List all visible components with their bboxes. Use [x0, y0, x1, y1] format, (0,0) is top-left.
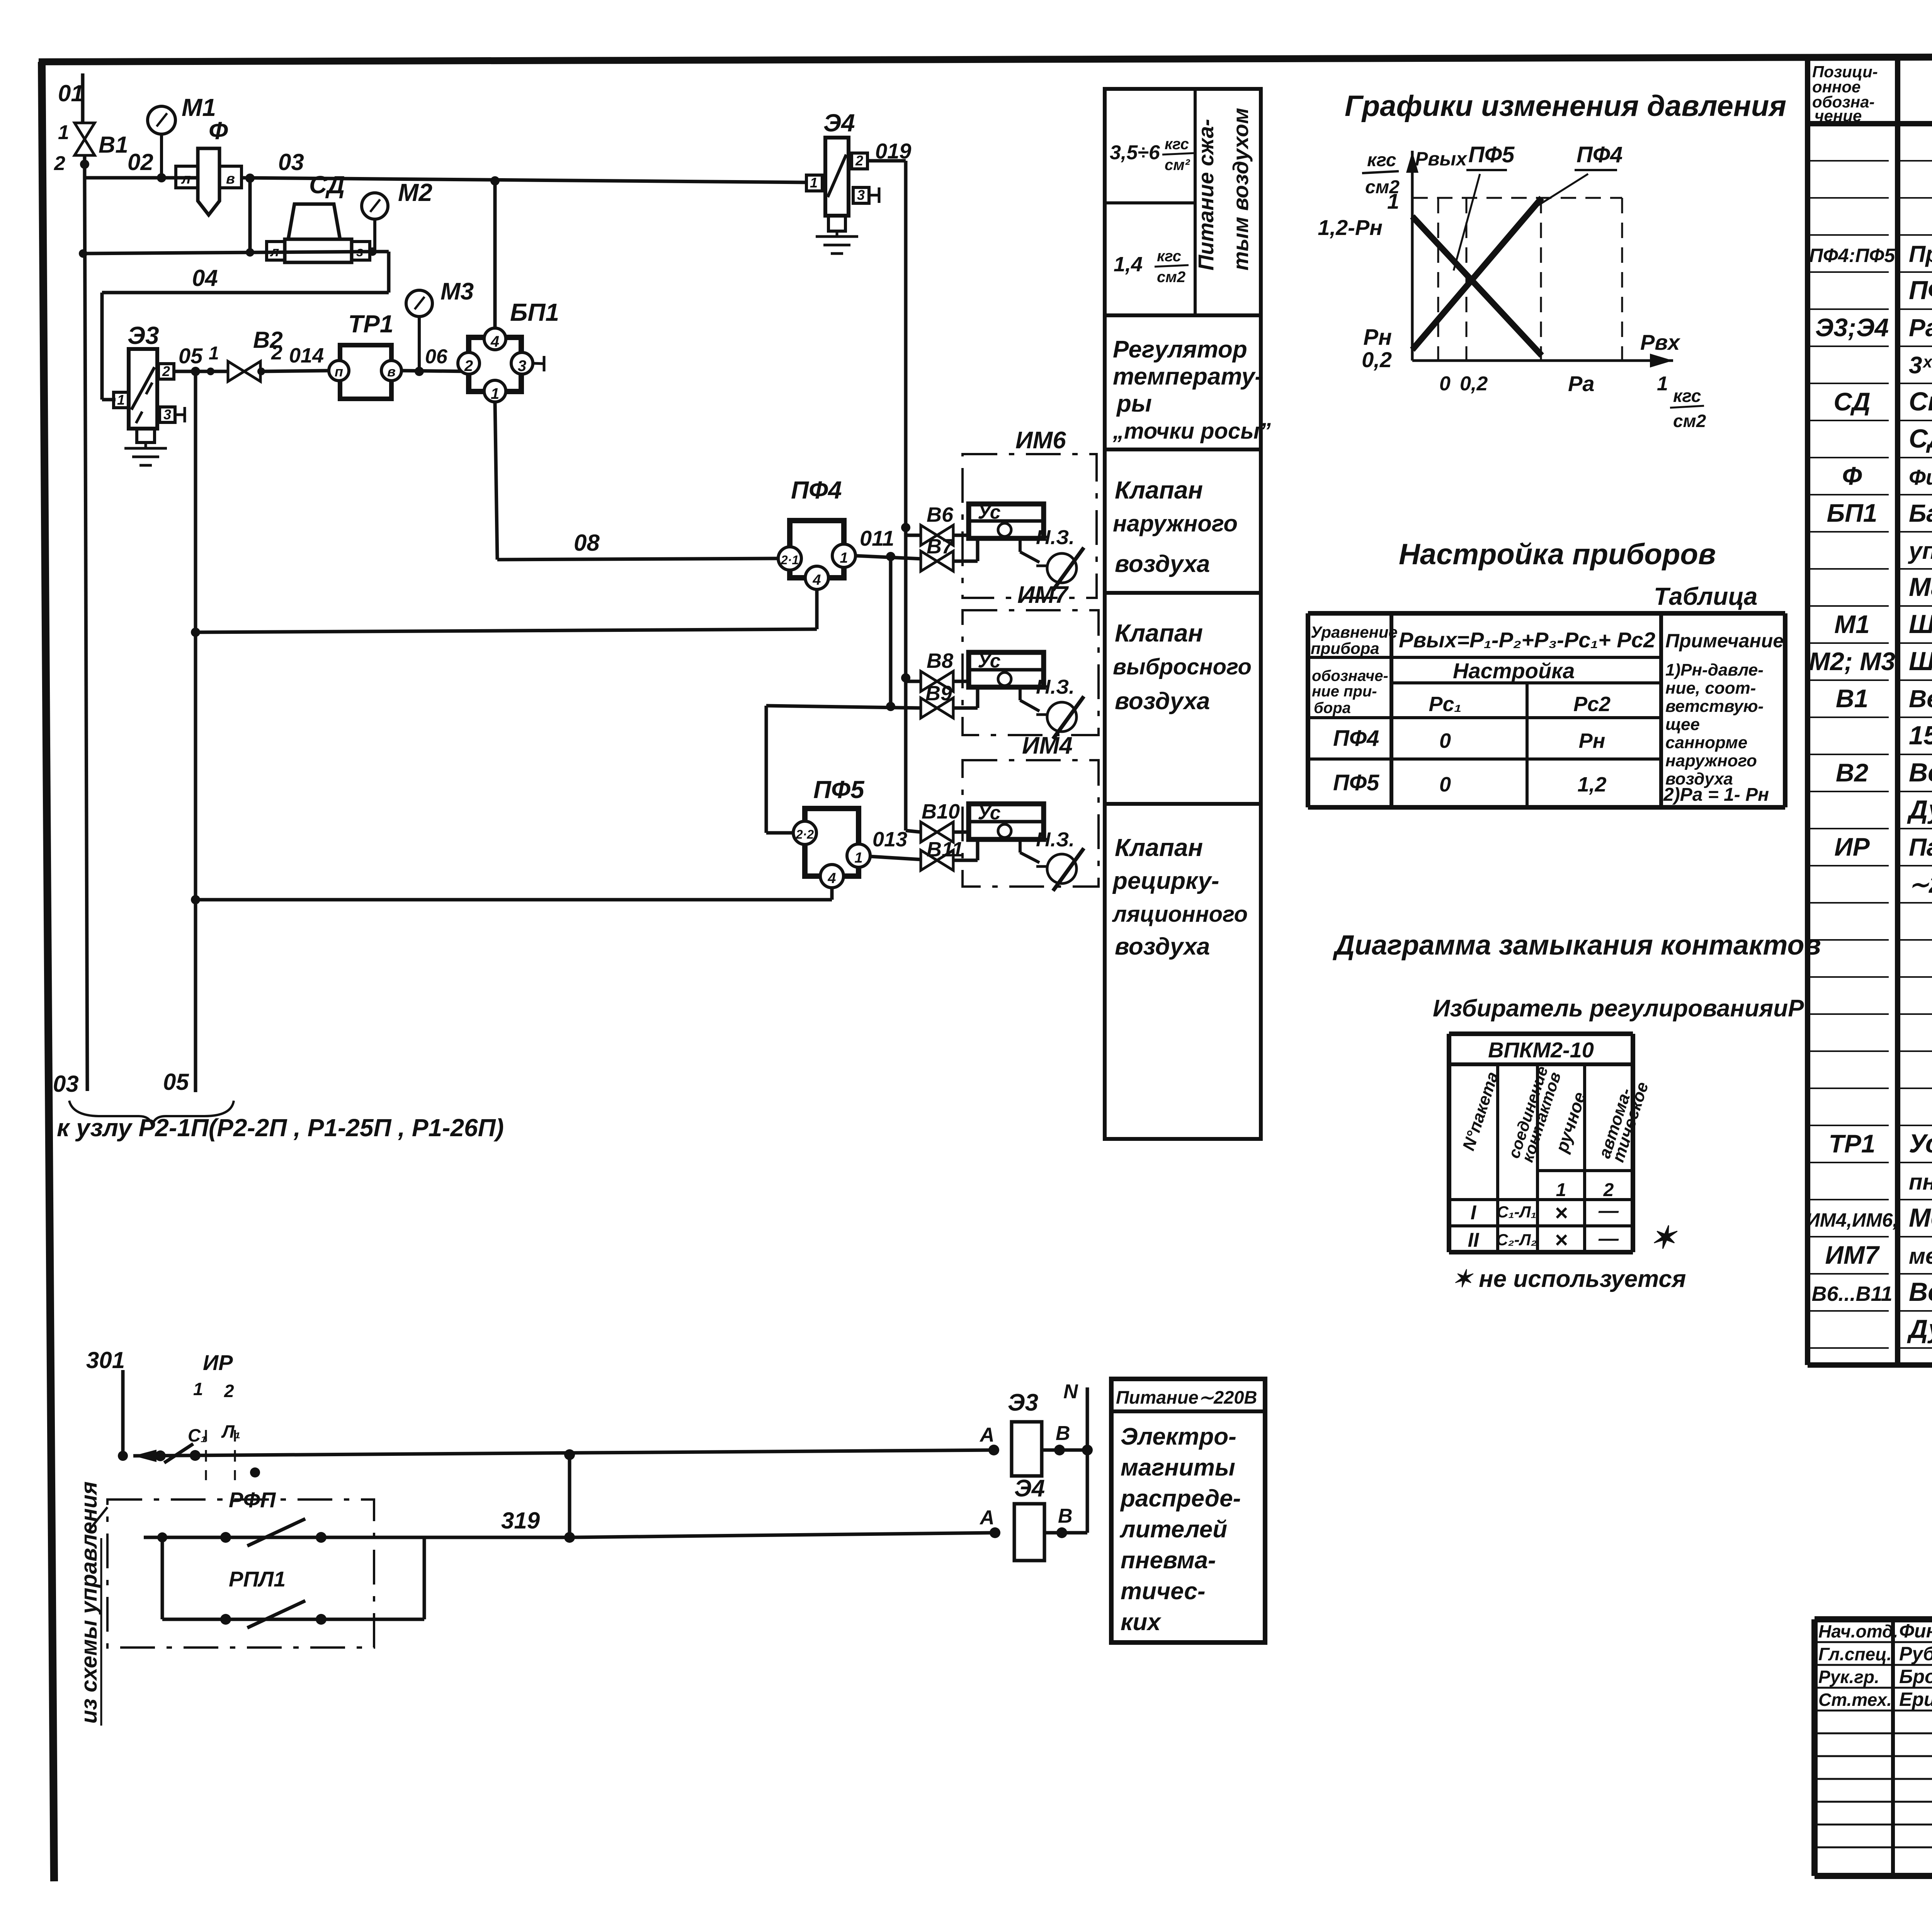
svg-text:ТР1: ТР1 [348, 310, 393, 338]
svg-text:4: 4 [827, 870, 836, 887]
svg-text:из схемы управления: из схемы управления [77, 1481, 102, 1724]
svg-text:Рвых=Р₁-Р₂+Р₃-Рс₁+ Рс2: Рвых=Р₁-Р₂+Р₃-Рс₁+ Рс2 [1399, 628, 1655, 652]
svg-text:×: × [1554, 1227, 1568, 1253]
svg-text:4: 4 [490, 333, 499, 350]
svg-text:Рвых: Рвых [1415, 148, 1468, 170]
svg-text:Ф: Ф [209, 117, 228, 145]
svg-text:в: в [226, 171, 235, 187]
svg-text:ИМ4,ИМ6,: ИМ4,ИМ6, [1806, 1209, 1898, 1231]
svg-text:Манометры МТ-2 ТУ25-02.72-7: Манометры МТ-2 ТУ25-02.72-75 [1909, 572, 1932, 602]
svg-text:В6: В6 [927, 503, 954, 526]
svg-text:Э4: Э4 [823, 109, 855, 137]
svg-text:1,2: 1,2 [1577, 773, 1606, 796]
svg-text:Байпасная панель дистанционног: Байпасная панель дистанционного [1909, 499, 1932, 527]
svg-text:БП1: БП1 [510, 298, 559, 326]
svg-text:Рук.гр.: Рук.гр. [1818, 1667, 1879, 1687]
svg-text:1: 1 [810, 175, 818, 191]
svg-text:С₂-Л₂: С₂-Л₂ [1496, 1231, 1537, 1249]
svg-text:Рн: Рн [1579, 729, 1605, 752]
svg-text:ИМ7: ИМ7 [1017, 582, 1069, 608]
svg-text:∼220В; 10А; ОСТ16.0.526.00: ∼220В; 10А; ОСТ16.0.526.001-77 [1909, 871, 1932, 898]
svg-text:Фингер: Фингер [1899, 1620, 1932, 1642]
svg-text:тичес-: тичес- [1121, 1578, 1206, 1605]
svg-text:магниты: магниты [1121, 1454, 1235, 1481]
svg-text:ПФ5: ПФ5 [813, 776, 865, 803]
svg-text:3,5÷6: 3,5÷6 [1110, 141, 1160, 164]
svg-text:2: 2 [855, 153, 863, 169]
svg-text:ПФ5: ПФ5 [1468, 142, 1515, 167]
svg-text:ляционного: ляционного [1112, 902, 1248, 927]
svg-text:I: I [1471, 1202, 1477, 1224]
svg-text:0: 0 [1439, 373, 1451, 395]
svg-text:Диаграмма замыкания контакто: Диаграмма замыкания контактов [1332, 930, 1821, 961]
svg-text:М2; М3: М2; М3 [1809, 647, 1895, 676]
svg-text:ние, соот-: ние, соот- [1665, 679, 1756, 698]
svg-text:РПЛ1: РПЛ1 [229, 1567, 286, 1591]
svg-text:3: 3 [163, 407, 171, 422]
svg-text:3: 3 [518, 357, 526, 374]
svg-text:Клапан: Клапан [1115, 476, 1203, 504]
svg-text:Примечание: Примечание [1665, 630, 1784, 652]
svg-text:Ду4 ТУ26-07.1085-74.: Ду4 ТУ26-07.1085-74. [1907, 1314, 1932, 1344]
svg-text:2: 2 [1603, 1180, 1614, 1200]
svg-text:см2: см2 [1157, 269, 1185, 286]
svg-text:Устройство терморегулирующее: Устройство терморегулирующее [1909, 1129, 1932, 1158]
svg-text:2·2: 2·2 [796, 827, 814, 841]
svg-text:В9: В9 [925, 682, 952, 705]
svg-text:4: 4 [812, 572, 821, 588]
svg-text:выбросного: выбросного [1113, 654, 1252, 679]
svg-text:1: 1 [117, 392, 125, 408]
svg-text:2: 2 [224, 1381, 234, 1401]
svg-text:А: А [979, 1506, 995, 1529]
svg-text:Распределитель пневматический: Распределитель пневматический [1909, 314, 1932, 342]
svg-text:1,2-Рн: 1,2-Рн [1318, 215, 1383, 240]
svg-text:СД: СД [1833, 387, 1870, 416]
svg-text:1: 1 [1556, 1180, 1566, 1200]
svg-text:05: 05 [179, 344, 203, 368]
svg-text:Вентиль диафрагмовый ВПД-4: Вентиль диафрагмовый ВПД-4 [1909, 1277, 1932, 1307]
svg-text:03: 03 [53, 1071, 79, 1097]
svg-text:ПФ4:ПФ5: ПФ4:ПФ5 [1809, 245, 1895, 266]
svg-text:08: 08 [574, 530, 600, 556]
svg-text:саннорме: саннорме [1665, 733, 1747, 752]
svg-text:„точки росы”: „точки росы” [1112, 419, 1271, 444]
svg-text:014: 014 [289, 344, 324, 367]
svg-text:Клапан: Клапан [1115, 619, 1203, 647]
svg-text:тым воздухом: тым воздухом [1228, 108, 1253, 271]
svg-text:2: 2 [54, 152, 65, 175]
svg-text:Настройка: Настройка [1453, 659, 1575, 683]
svg-text:05: 05 [163, 1069, 189, 1095]
svg-text:воздуха: воздуха [1115, 688, 1210, 715]
svg-text:011: 011 [860, 526, 894, 550]
svg-text:ИМ7: ИМ7 [1825, 1241, 1880, 1269]
svg-text:3: 3 [857, 187, 865, 203]
svg-text:В1: В1 [99, 132, 128, 158]
svg-text:Ду4 ТУ26-07.1085-74: Ду4 ТУ26-07.1085-74 [1907, 795, 1932, 824]
svg-text:—: — [1598, 1200, 1619, 1222]
svg-text:Н.З.: Н.З. [1036, 676, 1075, 698]
svg-text:см²: см² [1165, 157, 1190, 174]
svg-text:кгс: кгс [1157, 248, 1181, 265]
svg-text:пневма-: пневма- [1121, 1547, 1216, 1574]
svg-text:В: В [1056, 1422, 1070, 1445]
svg-text:Клапан: Клапан [1115, 834, 1203, 861]
svg-text:С₁-Л₁: С₁-Л₁ [1497, 1203, 1537, 1221]
svg-text:×: × [1554, 1200, 1568, 1225]
svg-text:06: 06 [425, 346, 448, 368]
svg-text:✶: ✶ [1650, 1220, 1678, 1255]
svg-text:ких: ких [1121, 1609, 1162, 1636]
svg-text:03: 03 [278, 149, 304, 175]
svg-text:ПФ4: ПФ4 [1333, 726, 1379, 751]
svg-text:Ф: Ф [1842, 461, 1862, 490]
svg-text:Нач.отд.: Нач.отд. [1818, 1621, 1898, 1641]
svg-text:Пакетный выключатель ВПКМ2-10: Пакетный выключатель ВПКМ2-10 [1909, 833, 1932, 861]
svg-text:1: 1 [491, 385, 499, 402]
svg-text:кгс: кгс [1673, 386, 1701, 406]
svg-text:ВПКМ2-10: ВПКМ2-10 [1488, 1038, 1594, 1062]
svg-text:з: з [356, 243, 363, 259]
svg-text:Избиратель регулированияиР: Избиратель регулированияиР [1433, 995, 1804, 1022]
svg-text:Шкала 0÷10 кгс/см²: Шкала 0÷10 кгс/см² [1909, 609, 1932, 639]
svg-text:Мембранный исполнительный: Мембранный исполнительный [1909, 1203, 1932, 1232]
svg-text:В11: В11 [927, 838, 963, 861]
svg-text:В1: В1 [1836, 684, 1868, 713]
svg-text:ИМ6: ИМ6 [1015, 427, 1066, 454]
svg-text:319: 319 [501, 1508, 540, 1534]
svg-text:013: 013 [872, 828, 907, 851]
svg-text:2)Ра = 1- Рн: 2)Ра = 1- Рн [1663, 785, 1769, 805]
svg-text:прибора: прибора [1311, 639, 1379, 657]
svg-text:1: 1 [193, 1379, 203, 1399]
svg-text:Фильтр воздуха ФВ25-02 ТУ25-02: Фильтр воздуха ФВ25-02 ТУ25-02.280666-76 [1909, 465, 1932, 489]
svg-text:Гл.спец.: Гл.спец. [1818, 1644, 1892, 1664]
svg-text:наружного: наружного [1113, 511, 1238, 536]
svg-text:Ст.тех.: Ст.тех. [1818, 1690, 1892, 1710]
svg-text:в: в [387, 364, 396, 380]
svg-text:Настройка приборов: Настройка приборов [1399, 538, 1716, 571]
svg-text:0,2: 0,2 [1460, 373, 1488, 395]
svg-text:температу-: температу- [1113, 363, 1263, 390]
svg-text:1,4: 1,4 [1114, 253, 1143, 276]
svg-text:Питание сжа-: Питание сжа- [1194, 119, 1218, 271]
svg-text:Регулятор: Регулятор [1113, 336, 1247, 363]
svg-text:0,2: 0,2 [1362, 347, 1392, 372]
svg-text:Н.З.: Н.З. [1036, 829, 1075, 851]
svg-text:Уравнение: Уравнение [1311, 623, 1398, 641]
svg-text:02: 02 [128, 149, 153, 175]
svg-text:В: В [1058, 1505, 1073, 1527]
svg-text:1)Рн-давле-: 1)Рн-давле- [1665, 660, 1764, 679]
svg-text:распреде-: распреде- [1120, 1485, 1241, 1512]
svg-text:301: 301 [86, 1347, 125, 1373]
svg-text:ПФ4: ПФ4 [1577, 142, 1622, 167]
svg-text:✶ не используется: ✶ не используется [1452, 1266, 1686, 1292]
svg-text:БП1: БП1 [1827, 499, 1878, 527]
svg-text:А: А [979, 1424, 995, 1446]
svg-text:Рубчинский: Рубчинский [1899, 1643, 1932, 1665]
svg-text:Таблица: Таблица [1654, 582, 1757, 610]
svg-text:N: N [1063, 1380, 1078, 1403]
svg-text:В10: В10 [922, 800, 960, 823]
svg-text:М2: М2 [398, 179, 432, 206]
svg-text:В2: В2 [1836, 758, 1869, 787]
svg-text:Бронштейн: Бронштейн [1899, 1666, 1932, 1687]
svg-text:ИМ4: ИМ4 [1022, 732, 1073, 759]
svg-text:ПФ5: ПФ5 [1333, 770, 1379, 795]
svg-text:СД: СД [309, 171, 345, 199]
svg-text:ПФ4: ПФ4 [791, 476, 842, 504]
svg-text:0: 0 [1439, 729, 1451, 752]
svg-text:II: II [1468, 1229, 1480, 1251]
svg-text:ветствую-: ветствую- [1665, 697, 1764, 716]
svg-text:1: 1 [840, 550, 848, 566]
svg-text:Н.З.: Н.З. [1036, 526, 1075, 549]
svg-text:ТР1: ТР1 [1828, 1129, 1875, 1158]
svg-text:0: 0 [1439, 773, 1451, 796]
svg-text:1: 1 [854, 850, 862, 866]
svg-text:Ус: Ус [978, 501, 1000, 523]
svg-text:Э3;Э4: Э3;Э4 [1815, 313, 1889, 342]
svg-text:управления БПДУ-А ТУ25-04.27: управления БПДУ-А ТУ25-04.2720-75 [1908, 538, 1932, 564]
svg-text:В8: В8 [927, 649, 953, 672]
svg-text:ИР: ИР [1834, 832, 1870, 861]
svg-text:Вентиль запорный муфтовый: Вентиль запорный муфтовый [1909, 685, 1932, 713]
svg-text:Вентиль диафрагмовый ВПД-4.: Вентиль диафрагмовый ВПД-4. [1909, 758, 1932, 787]
svg-text:Ус: Ус [978, 802, 1000, 824]
svg-text:Стабилизатор давления воздуха: Стабилизатор давления воздуха [1909, 387, 1932, 416]
svg-text:кгс: кгс [1367, 150, 1396, 170]
svg-text:2: 2 [271, 342, 282, 364]
svg-text:к узлу Р2-1П(Р2-2П , Р1-25П ,: к узлу Р2-1П(Р2-2П , Р1-25П , Р1-26П) [57, 1114, 504, 1142]
svg-text:Рс2: Рс2 [1573, 693, 1611, 716]
svg-text:В6...В11: В6...В11 [1811, 1282, 1892, 1305]
svg-text:ПФ1.1 ТУ25-02 040628-77: ПФ1.1 ТУ25-02 040628-77 [1909, 276, 1932, 305]
svg-text:1: 1 [209, 343, 219, 364]
svg-text:бора: бора [1314, 700, 1351, 717]
svg-text:Ерина: Ерина [1899, 1688, 1932, 1710]
svg-text:Графики изменения давления: Графики изменения давления [1345, 90, 1786, 123]
svg-text:Шкала 0÷2,5 кгс/см²: Шкала 0÷2,5 кгс/см² [1909, 647, 1932, 676]
svg-text:ры: ры [1116, 390, 1152, 417]
svg-text:п: п [335, 364, 343, 380]
svg-text:обозначе-: обозначе- [1312, 667, 1388, 684]
svg-text:пневматическое ТУДП-М1 ТУ25-02: пневматическое ТУДП-М1 ТУ25-02.1297-74 [1909, 1169, 1932, 1195]
svg-text:воздуха: воздуха [1115, 933, 1210, 960]
svg-text:01: 01 [58, 80, 84, 106]
svg-text:воздуха: воздуха [1115, 551, 1210, 577]
svg-text:Питание∼220В: Питание∼220В [1116, 1387, 1257, 1408]
svg-text:2·1: 2·1 [781, 553, 799, 567]
svg-text:Прибор алгебраического суммиро: Прибор алгебраического суммирования [1909, 241, 1932, 267]
svg-text:1: 1 [1657, 373, 1668, 395]
svg-text:1: 1 [58, 121, 69, 144]
svg-text:Электро-: Электро- [1121, 1423, 1236, 1450]
svg-text:—: — [1598, 1227, 1619, 1250]
svg-text:Рс₁: Рс₁ [1429, 693, 1461, 716]
svg-text:В7: В7 [927, 535, 954, 558]
svg-text:Э3: Э3 [1008, 1389, 1038, 1416]
svg-text:ИР: ИР [203, 1350, 233, 1375]
svg-text:М1: М1 [1834, 610, 1870, 638]
svg-text:наружного: наружного [1665, 751, 1757, 770]
svg-text:3ˣ ходовой 22кч80¹ск ТУ26-07.: 3ˣ ходовой 22кч80¹ск ТУ26-07.034-76 [1909, 352, 1932, 379]
svg-text:М3: М3 [440, 278, 474, 305]
svg-text:Э4: Э4 [1014, 1475, 1045, 1502]
svg-text:щее: щее [1665, 715, 1700, 734]
svg-text:кгс: кгс [1165, 136, 1189, 153]
svg-text:рецирку-: рецирку- [1112, 868, 1219, 894]
svg-text:СДВ-25 ТУ25-02.280656-76: СДВ-25 ТУ25-02.280656-76 [1909, 424, 1932, 453]
svg-text:Ра: Ра [1568, 371, 1595, 396]
svg-text:Ус: Ус [978, 650, 1000, 672]
svg-text:С₁: С₁ [188, 1425, 207, 1445]
svg-text:см2: см2 [1673, 411, 1706, 431]
svg-text:2: 2 [162, 363, 170, 379]
svg-text:04: 04 [192, 265, 218, 291]
svg-text:л: л [181, 171, 191, 187]
svg-text:ние при-: ние при- [1312, 683, 1377, 700]
svg-text:2: 2 [464, 357, 473, 374]
svg-text:л: л [270, 243, 279, 259]
svg-text:Рн: Рн [1363, 325, 1392, 350]
svg-text:механизм ГОСТ 9887-70 с позици: механизм ГОСТ 9887-70 с позиционером [1909, 1244, 1932, 1269]
svg-text:чение: чение [1815, 107, 1862, 125]
svg-text:лителей: лителей [1119, 1516, 1227, 1543]
svg-text:15Б3рк; Ду15 ГОСТ 9086-74: 15Б3рк; Ду15 ГОСТ 9086-74 [1909, 721, 1932, 750]
svg-text:Л₁: Л₁ [221, 1421, 241, 1442]
svg-text:Э3: Э3 [128, 322, 159, 349]
svg-text:Рвх: Рвх [1640, 330, 1681, 354]
svg-text:1: 1 [1387, 189, 1399, 213]
